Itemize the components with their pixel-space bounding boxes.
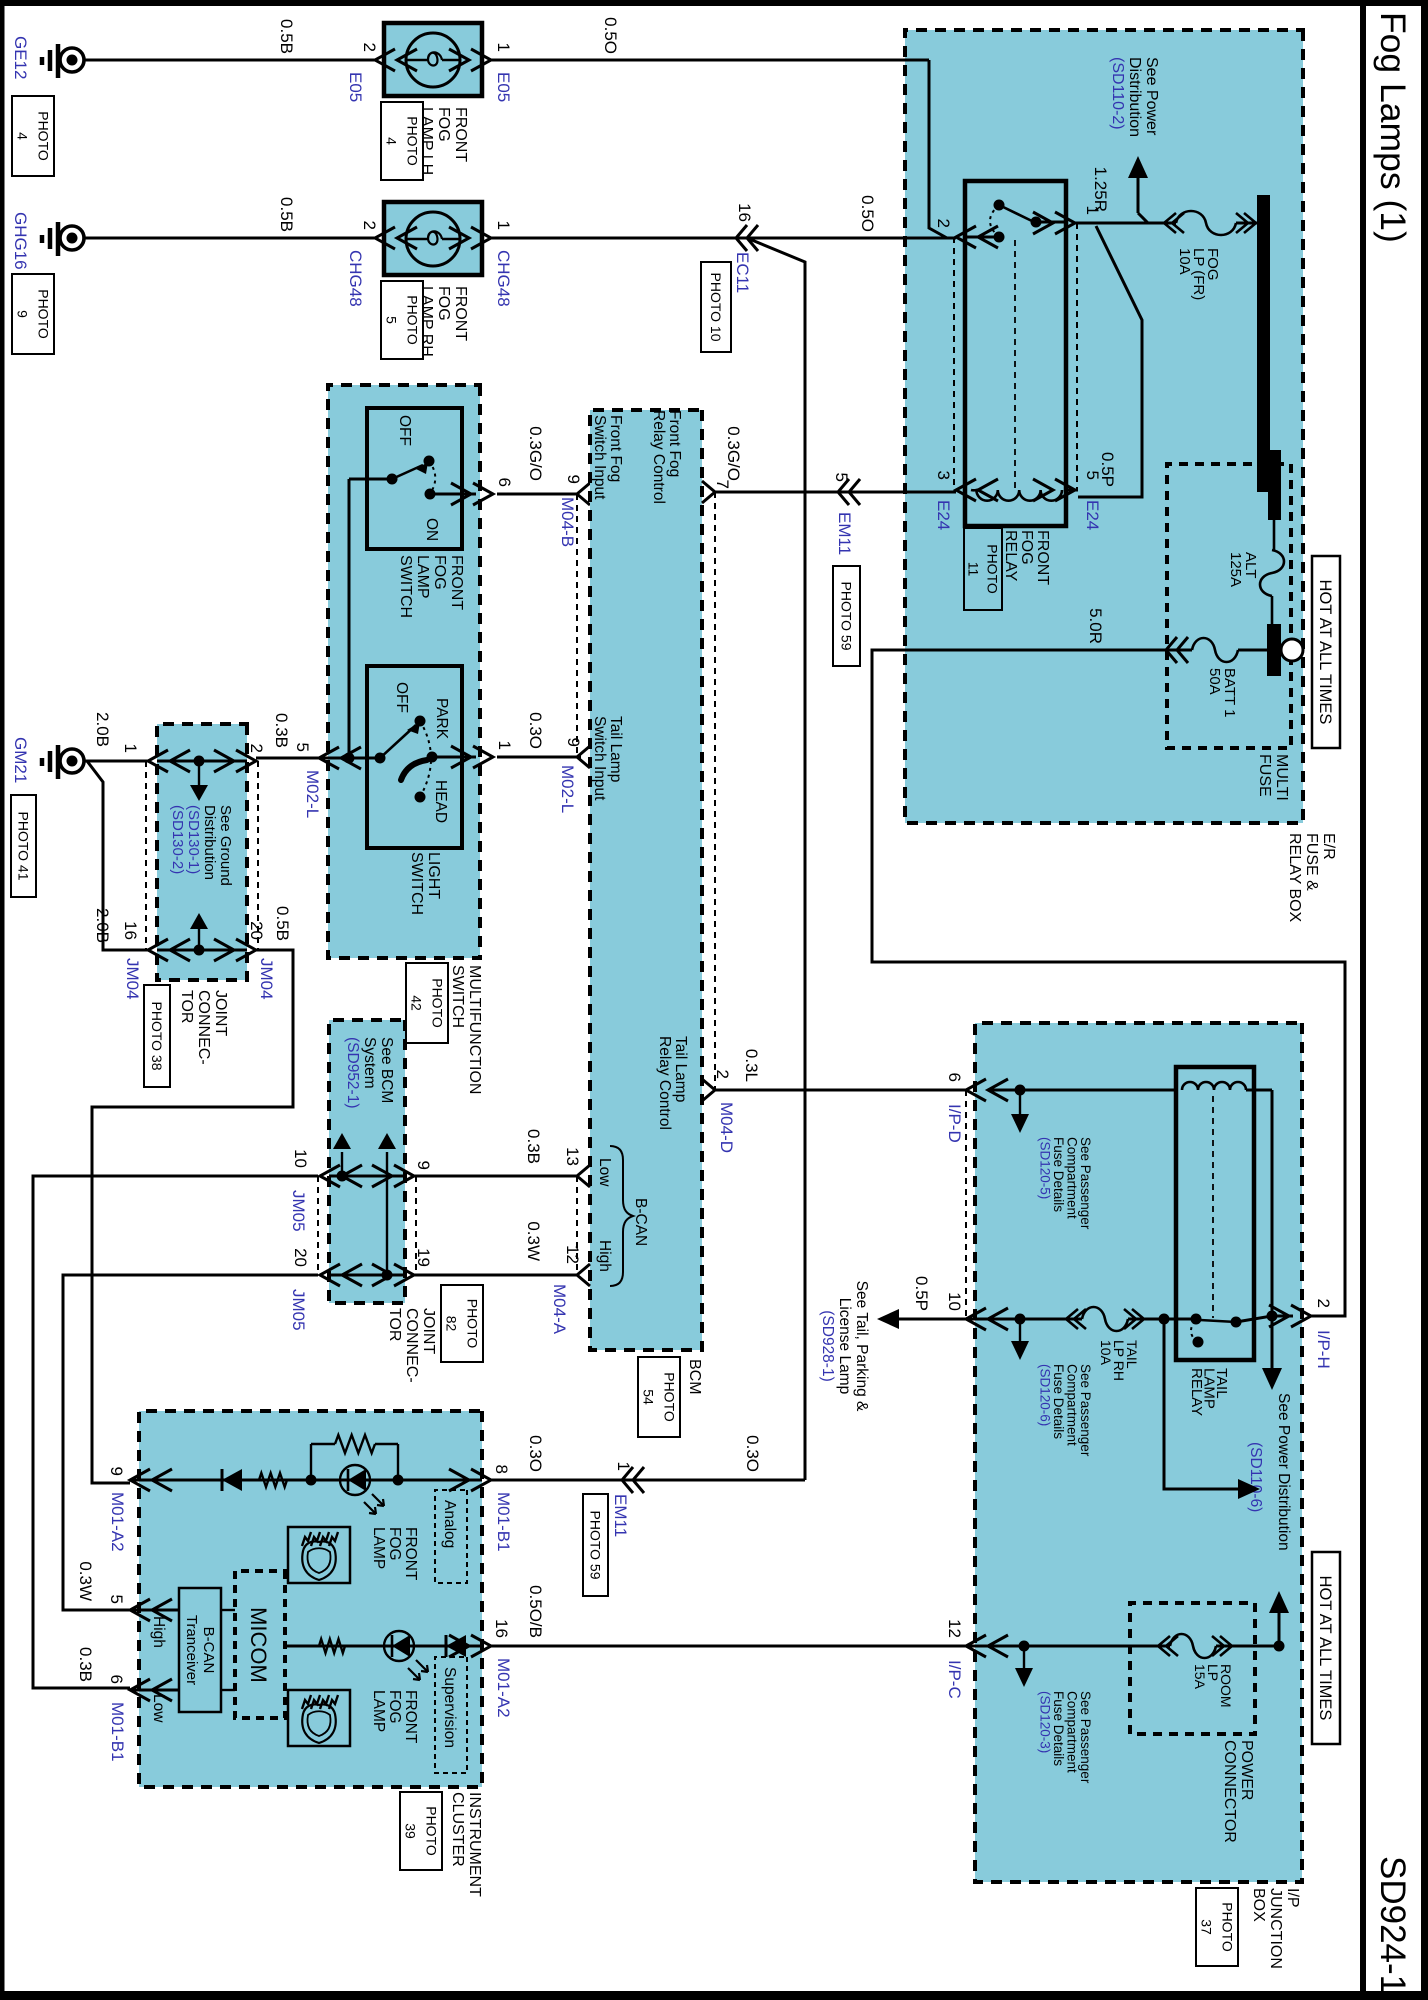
room lamp hot arrow <box>1269 1591 1289 1646</box>
svg-text:9: 9 <box>14 310 30 318</box>
fog lamp LH pin1 labels <box>494 43 513 103</box>
svg-text:LIGHT: LIGHT <box>425 852 442 899</box>
svg-text:FRONT: FRONT <box>402 1690 419 1744</box>
fog lamp LH name <box>418 107 469 175</box>
relay coil <box>971 490 1062 501</box>
svg-text:FOG: FOG <box>435 286 452 321</box>
joint connector JM05 box <box>329 1020 405 1303</box>
relay pin 1 label <box>1083 206 1102 215</box>
svg-text:Tranceiver: Tranceiver <box>183 1615 200 1685</box>
cluster pin16 labels <box>492 1619 513 1717</box>
BCM top connector dashed link <box>714 492 716 1090</box>
svg-text:BCM: BCM <box>686 1359 703 1395</box>
light switch contacts <box>375 716 438 803</box>
JM04 bottom connector dashed link <box>145 761 147 950</box>
svg-text:E/R: E/R <box>1320 833 1337 860</box>
svg-text:See Power Distribution: See Power Distribution <box>1275 1393 1292 1551</box>
front fog switch pin6 chevrons <box>451 483 493 505</box>
svg-text:FOG: FOG <box>386 1690 403 1724</box>
JM04 pin16 chevrons <box>148 939 190 961</box>
multifunction switch box <box>328 385 480 958</box>
svg-text:CHG48: CHG48 <box>346 250 365 307</box>
front fog switch pin6 labels <box>495 478 577 548</box>
svg-text:Fuse Details: Fuse Details <box>1051 1364 1066 1439</box>
BCM pin9a chevrons <box>577 483 590 505</box>
wire JM04 pin1 to ground <box>84 760 148 763</box>
svg-text:(SD120-5): (SD120-5) <box>1038 1137 1053 1199</box>
wire bcan low cluster <box>130 1689 179 1692</box>
front fog lamp switch box <box>367 408 462 549</box>
svg-text:FRONT: FRONT <box>402 1527 419 1581</box>
label 0.5O RH <box>858 195 877 232</box>
see passenger SD120-5 arrow <box>1011 1090 1029 1133</box>
svg-text:JUNCTION: JUNCTION <box>1267 1888 1284 1969</box>
tail lamp relay dashed link <box>1212 1096 1214 1318</box>
svg-text:FRONT: FRONT <box>452 286 469 341</box>
BCM B-CAN brace <box>610 1146 633 1286</box>
light switch box <box>367 666 462 848</box>
wire tail relay output <box>1128 1314 1196 1325</box>
svg-text:M01-A2: M01-A2 <box>108 1492 127 1552</box>
wire relay pin1 to fuse <box>1075 222 1176 225</box>
svg-text:Tail Lamp: Tail Lamp <box>672 1036 689 1102</box>
svg-text:10: 10 <box>291 1149 310 1168</box>
wire ALT fuse to bus3 <box>1271 596 1274 624</box>
wire 0.3L inside IP <box>988 1085 1176 1096</box>
svg-text:20: 20 <box>247 921 266 940</box>
fuse ROOM LP 15A <box>1170 1634 1234 1708</box>
front fog lamp switch contacts <box>387 456 436 500</box>
svg-text:10: 10 <box>945 1292 964 1311</box>
svg-text:RELAY BOX: RELAY BOX <box>1286 833 1303 923</box>
svg-text:7: 7 <box>713 480 732 489</box>
wire common to JM04 <box>256 757 349 760</box>
front fog lamp telltale 2 <box>288 1690 419 1746</box>
svg-text:PHOTO 59: PHOTO 59 <box>838 582 854 651</box>
svg-text:Front Fog: Front Fog <box>607 415 624 482</box>
see power distribution SD110-2 label <box>1109 57 1160 137</box>
multifunction pin5 labels <box>293 743 322 819</box>
svg-text:I/P: I/P <box>1284 1888 1301 1908</box>
tail lamp relay name <box>1188 1368 1230 1416</box>
svg-text:See BCM: See BCM <box>378 1037 395 1103</box>
ground GHG16 labels <box>11 212 54 354</box>
svg-text:EM11: EM11 <box>835 512 854 555</box>
svg-text:GE12: GE12 <box>11 36 30 79</box>
svg-text:(SD952-1): (SD952-1) <box>344 1037 361 1109</box>
svg-text:JM04: JM04 <box>257 958 276 1000</box>
svg-text:10A: 10A <box>1176 248 1193 275</box>
svg-text:6: 6 <box>945 1073 964 1082</box>
svg-text:2.0B: 2.0B <box>93 712 112 747</box>
svg-text:M01-B1: M01-B1 <box>108 1702 127 1762</box>
svg-text:PHOTO: PHOTO <box>1219 1902 1235 1952</box>
svg-text:0.3B: 0.3B <box>76 1647 95 1682</box>
wire M02-L to BCM <box>497 756 581 759</box>
svg-text:LAMP LH: LAMP LH <box>418 107 435 175</box>
svg-text:FOG: FOG <box>1018 530 1035 565</box>
wire LH branch <box>491 60 947 238</box>
svg-text:12: 12 <box>563 1245 582 1264</box>
svg-text:SWITCH: SWITCH <box>408 852 425 915</box>
svg-text:Fog Lamps (1): Fog Lamps (1) <box>1373 12 1413 243</box>
relay FRONT FOG RELAY box <box>965 181 1066 526</box>
svg-text:See Tail, Parking &: See Tail, Parking & <box>853 1281 870 1412</box>
see passenger SD120-3 label <box>1038 1691 1094 1784</box>
JM04 wire 16-20 through <box>157 945 247 956</box>
svg-text:5.0R: 5.0R <box>1086 608 1105 644</box>
svg-text:0.3W: 0.3W <box>524 1221 543 1261</box>
svg-text:CONNECTOR: CONNECTOR <box>1221 1740 1238 1843</box>
svg-text:15A: 15A <box>1192 1664 1208 1690</box>
JM05 pin19 chevrons <box>372 1264 414 1286</box>
cluster diode 2 <box>446 1635 466 1657</box>
cluster High label <box>150 1616 167 1648</box>
svg-text:FUSE &: FUSE & <box>1303 833 1320 891</box>
svg-text:0.3B: 0.3B <box>524 1129 543 1164</box>
svg-text:2: 2 <box>1314 1299 1333 1308</box>
JM04 see ground distribution label <box>169 805 234 886</box>
bus bar segment 2 <box>1268 450 1281 520</box>
svg-text:5: 5 <box>293 743 312 752</box>
svg-text:I/P-H: I/P-H <box>1314 1330 1333 1369</box>
label 0.3G/O upper <box>724 426 743 481</box>
label 0.3G/O lower <box>526 426 545 481</box>
svg-text:1: 1 <box>494 43 513 52</box>
svg-text:1: 1 <box>614 1462 633 1471</box>
svg-text:System: System <box>361 1037 378 1089</box>
svg-text:HEAD: HEAD <box>432 780 449 823</box>
joint connector JM04 box <box>157 724 247 980</box>
svg-text:INSTRUMENT: INSTRUMENT <box>466 1792 483 1897</box>
battery terminal circle <box>1281 639 1303 661</box>
JM05 pin10 label <box>289 1149 310 1232</box>
svg-text:Analog: Analog <box>441 1500 458 1548</box>
svg-text:125A: 125A <box>1227 552 1244 587</box>
light switch OFF label <box>393 682 410 713</box>
svg-text:PHOTO: PHOTO <box>661 1372 677 1422</box>
svg-text:E05: E05 <box>346 72 365 102</box>
BCM pin9b label <box>564 738 583 747</box>
relay switch contact <box>965 200 1066 243</box>
relay mechanical dashed link <box>1014 240 1016 490</box>
cluster pin16 chevrons <box>449 1635 491 1657</box>
see passenger SD120-5 label <box>1038 1137 1094 1230</box>
cluster pin9 labels <box>107 1467 127 1552</box>
svg-text:42: 42 <box>408 995 424 1011</box>
BCM front fog switch input label <box>591 415 624 500</box>
svg-text:FRONT: FRONT <box>1034 530 1051 585</box>
relay TAIL LAMP RELAY box <box>1176 1067 1254 1360</box>
label 0.3B bcan <box>524 1129 543 1164</box>
cluster indicator wire <box>130 1479 482 1482</box>
wire LH lamp to ground <box>85 59 375 62</box>
BCM pin12 chevrons <box>577 1264 590 1286</box>
svg-text:Front Fog: Front Fog <box>666 410 683 477</box>
svg-text:(SD120-3): (SD120-3) <box>1038 1691 1053 1753</box>
svg-text:PHOTO: PHOTO <box>464 1299 480 1349</box>
fog lamp RH pin1 chevrons <box>449 227 491 249</box>
svg-text:M01-B1: M01-B1 <box>494 1492 513 1552</box>
page code SD924-1 <box>1373 1856 1412 1994</box>
svg-text:MICOM: MICOM <box>246 1607 271 1683</box>
svg-text:FUSE: FUSE <box>1256 754 1273 797</box>
svg-text:0.3O: 0.3O <box>743 1435 762 1472</box>
cluster junction dots <box>306 1475 404 1486</box>
label 1.25R <box>1091 167 1110 212</box>
label 0.3W bcan <box>524 1221 543 1261</box>
svg-text:0.3W: 0.3W <box>76 1561 95 1601</box>
BCM box <box>590 410 702 1350</box>
BCM pin2 chevrons <box>702 1079 715 1101</box>
BCM pin9b chevrons <box>577 746 590 768</box>
wire 5.0R <box>872 650 1345 1316</box>
relay connector dashed link bottom <box>953 237 955 490</box>
svg-text:0.3L: 0.3L <box>742 1049 761 1082</box>
label 0.5B jm04 <box>273 906 292 941</box>
svg-text:6: 6 <box>495 478 514 487</box>
label 2.0B pin16 <box>93 908 112 943</box>
svg-text:0.5O: 0.5O <box>858 195 877 232</box>
fuse TAIL LP RH chevrons lower <box>1066 1309 1086 1329</box>
I/P connector dashed link <box>965 1090 967 1319</box>
svg-text:1: 1 <box>495 741 514 750</box>
MULTI FUSE box <box>1167 464 1291 748</box>
relay pin 5 chevrons <box>1033 479 1075 501</box>
wire 0.5O/B <box>491 1645 966 1648</box>
HOT AT ALL TIMES label 2 <box>1312 1552 1340 1744</box>
cluster pin8 labels <box>492 1465 513 1552</box>
BCM Low label <box>596 1158 613 1187</box>
JM04 top connector dashed link <box>257 761 259 950</box>
svg-text:4: 4 <box>383 137 399 145</box>
JM04 pin1 label <box>121 744 140 753</box>
cluster diode <box>222 1469 242 1491</box>
fuse ROOM LP chevrons upper <box>1212 1636 1232 1656</box>
MULTI FUSE label <box>1256 754 1290 801</box>
svg-text:PHOTO 59: PHOTO 59 <box>587 1511 603 1580</box>
svg-text:E24: E24 <box>934 500 953 530</box>
svg-text:Compartment: Compartment <box>1065 1364 1080 1446</box>
svg-text:JM05: JM05 <box>289 1190 308 1232</box>
BCM bottom connector dashed link 2 <box>576 1176 578 1275</box>
fog lamp LH pin2 labels <box>346 43 379 103</box>
JM05 pin19 label <box>414 1248 433 1267</box>
wire see tail parking <box>877 1309 966 1329</box>
svg-text:CONNEC-: CONNEC- <box>403 1308 420 1383</box>
JM05 low arrow <box>333 1133 351 1176</box>
I/P pin10 label <box>945 1292 964 1311</box>
svg-text:2: 2 <box>360 43 379 52</box>
svg-text:PARK: PARK <box>433 698 450 740</box>
front fog switch name <box>397 555 465 618</box>
svg-text:9: 9 <box>414 1161 433 1170</box>
label 0.3O cluster side <box>526 1435 545 1472</box>
svg-text:M04-B: M04-B <box>558 497 577 547</box>
label 0.3O bus upper <box>743 1435 762 1472</box>
svg-text:PHOTO: PHOTO <box>35 111 51 161</box>
svg-text:ALT: ALT <box>1242 552 1259 578</box>
JM05 pin9 label <box>414 1161 433 1170</box>
wire RH lamp to ground <box>85 237 375 240</box>
wire room lamp lower <box>966 1641 1170 1652</box>
svg-text:3: 3 <box>934 471 953 480</box>
svg-text:8: 8 <box>492 1465 511 1474</box>
relay connector dashed link top <box>1076 223 1078 490</box>
svg-text:SWITCH: SWITCH <box>397 555 414 618</box>
multifunction pin5 chevrons <box>319 747 361 769</box>
svg-text:CONNEC-: CONNEC- <box>195 990 212 1065</box>
cluster analog label <box>435 1490 467 1583</box>
relay pin 3 label <box>934 471 953 531</box>
wire 0.5B JM04 to cluster <box>92 950 293 1483</box>
fuse TAIL LP RH 10A <box>1082 1307 1140 1381</box>
svg-text:50A: 50A <box>1206 668 1223 695</box>
fog lamp RH pin1 labels <box>494 221 513 307</box>
svg-text:EM11: EM11 <box>611 1494 630 1537</box>
svg-text:0.5P: 0.5P <box>912 1276 931 1311</box>
cluster Low label <box>150 1694 167 1723</box>
svg-text:5: 5 <box>832 473 851 482</box>
wire relay pin2 down <box>491 237 956 240</box>
svg-text:37: 37 <box>1198 1919 1214 1935</box>
wire B-CAN high BCM to JM05 <box>414 1274 577 1277</box>
connector EM11 pin1 chevrons <box>622 1467 644 1493</box>
svg-text:Low: Low <box>596 1158 613 1187</box>
E/R fuse and relay box <box>905 30 1303 823</box>
svg-text:B-CAN: B-CAN <box>632 1198 649 1246</box>
svg-text:BATT 1: BATT 1 <box>1221 668 1238 717</box>
wire 0.5P relay pin5 <box>1078 226 1142 497</box>
fuse FOG chevrons upper <box>1236 213 1256 233</box>
connector EC11 chevrons <box>736 225 758 251</box>
svg-text:RELAY: RELAY <box>1002 530 1019 582</box>
svg-text:E05: E05 <box>494 72 513 102</box>
svg-text:ON: ON <box>423 518 440 541</box>
wire coil feed <box>1246 1090 1272 1316</box>
svg-text:HOT AT ALL TIMES: HOT AT ALL TIMES <box>1316 1576 1334 1721</box>
see passenger SD120-6 arrow <box>1011 1319 1029 1360</box>
svg-text:FRONT: FRONT <box>452 107 469 162</box>
svg-text:9: 9 <box>107 1467 126 1476</box>
svg-text:M02-L: M02-L <box>303 770 322 818</box>
svg-text:(SD130-1): (SD130-1) <box>185 805 202 874</box>
svg-text:FOG: FOG <box>431 555 448 590</box>
JM04 pin1 chevrons <box>148 750 190 772</box>
svg-text:0.5B: 0.5B <box>277 197 296 232</box>
wire relay pin3 to BCM pin7 <box>715 491 956 494</box>
wire ground branch to JM04 pin16 <box>87 761 148 950</box>
connector EM11 pin5 chevrons <box>838 479 860 505</box>
svg-text:BOX: BOX <box>1250 1888 1267 1922</box>
relay name label <box>964 528 1051 610</box>
svg-text:16: 16 <box>492 1619 511 1638</box>
svg-text:See Ground: See Ground <box>217 805 234 886</box>
JM04 arrow right <box>190 761 208 801</box>
instrument cluster box <box>139 1411 482 1787</box>
BCM pin13 chevrons <box>577 1165 590 1187</box>
label 0.3L <box>742 1049 761 1082</box>
svg-text:FOG: FOG <box>386 1527 403 1561</box>
instrument cluster label <box>400 1792 483 1897</box>
svg-text:Distribution: Distribution <box>201 805 218 880</box>
relay pin 3 chevrons <box>956 479 998 501</box>
svg-text:M04-A: M04-A <box>550 1284 569 1335</box>
JM04 arrow left <box>190 913 208 950</box>
svg-text:Switch Input: Switch Input <box>591 716 608 801</box>
JM04 name label <box>144 985 229 1087</box>
ground GM21 labels <box>11 737 36 897</box>
room lamp fuse box <box>1130 1603 1255 1734</box>
POWER CONNECTOR label <box>1221 1740 1255 1843</box>
svg-text:High: High <box>150 1616 167 1648</box>
svg-text:JM05: JM05 <box>289 1289 308 1331</box>
svg-text:EC11: EC11 <box>733 252 752 293</box>
svg-text:LAMP: LAMP <box>370 1527 387 1569</box>
svg-text:2: 2 <box>247 744 266 753</box>
front fog lamp LH box <box>384 23 482 96</box>
relay pin 2 chevrons <box>956 226 998 248</box>
I/P pin10 chevrons <box>966 1308 1008 1330</box>
JM04 pin2 chevrons <box>214 750 256 772</box>
MICOM box <box>235 1571 285 1718</box>
svg-text:0.5B: 0.5B <box>273 906 292 941</box>
svg-text:License Lamp: License Lamp <box>836 1298 853 1395</box>
label 0.3O switch <box>526 712 545 749</box>
fuse FOG LP (FR) 10A <box>1176 211 1236 300</box>
svg-text:GM21: GM21 <box>11 737 30 783</box>
cluster supervision label <box>435 1657 467 1773</box>
relay pin 1 chevrons <box>1033 212 1075 234</box>
JM05 pin20 chevrons <box>320 1264 362 1286</box>
svg-text:12: 12 <box>945 1619 964 1638</box>
cluster LED lamp 2 <box>384 1631 428 1680</box>
JM05 pin10 chevrons <box>320 1165 362 1187</box>
svg-text:M02-L: M02-L <box>558 765 577 813</box>
JM05 name label <box>386 1285 483 1383</box>
svg-text:2: 2 <box>360 221 379 230</box>
svg-text:(SD110-6): (SD110-6) <box>1247 1442 1264 1512</box>
svg-text:FOG: FOG <box>435 107 452 142</box>
wire fuse to pin10 <box>966 1314 1082 1325</box>
label 2.0B pin1 <box>93 712 112 747</box>
svg-text:M01-A2: M01-A2 <box>494 1658 513 1718</box>
svg-text:See Power: See Power <box>1143 57 1160 136</box>
svg-text:82: 82 <box>443 1316 459 1332</box>
svg-text:FRONT: FRONT <box>448 555 465 610</box>
fuse TAIL LP RH chevrons upper <box>1124 1309 1144 1329</box>
svg-text:5: 5 <box>383 316 399 324</box>
svg-text:See Passenger: See Passenger <box>1078 1691 1093 1784</box>
label 0.3B switch <box>272 713 291 748</box>
light switch name <box>408 852 442 915</box>
wire 0.3L <box>715 1089 966 1092</box>
wire front fog switch output <box>430 493 476 496</box>
svg-text:0.3B: 0.3B <box>272 713 291 748</box>
see passenger SD120-3 arrow <box>1015 1646 1033 1687</box>
title separator line <box>1360 0 1366 2000</box>
wire M04-B to BCM <box>497 493 577 496</box>
connector EC11 labels <box>701 203 754 352</box>
svg-text:High: High <box>596 1240 613 1272</box>
svg-text:Fuse Details: Fuse Details <box>1051 1137 1066 1212</box>
HOT AT ALL TIMES label 1 <box>1312 556 1340 748</box>
svg-text:Distribution: Distribution <box>1126 57 1143 137</box>
cluster resistor <box>259 1473 287 1487</box>
svg-text:JOINT: JOINT <box>212 990 229 1036</box>
svg-text:See Passenger: See Passenger <box>1078 1137 1093 1230</box>
JM05 pin20 label <box>289 1248 310 1331</box>
